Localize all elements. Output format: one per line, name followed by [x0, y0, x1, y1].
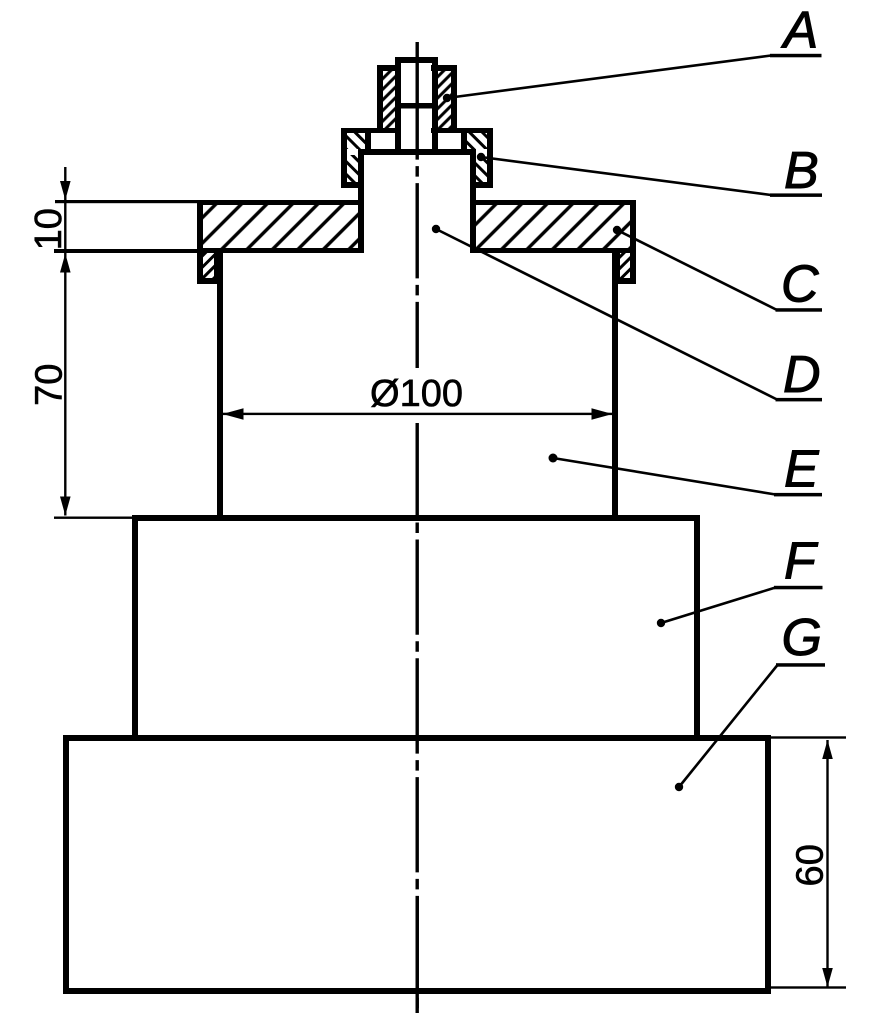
label C leader	[617, 230, 777, 310]
boss right edge	[470, 149, 476, 253]
svg-text:70: 70	[29, 364, 71, 406]
plate C bottom line right	[470, 248, 636, 253]
plate C bottom line left	[197, 248, 364, 253]
dim 60 up arrow	[822, 740, 833, 759]
bushing B right outer wall	[487, 128, 493, 188]
plate C top line left	[197, 200, 364, 205]
dim 70 bottom extension line	[54, 517, 132, 519]
dim 60 down arrow	[822, 968, 833, 987]
plate C hatch right lip	[620, 253, 630, 278]
label A leader dot	[443, 94, 451, 102]
dim 60 bottom extension line	[771, 986, 846, 988]
plate C left lip inner edge	[214, 253, 220, 284]
bushing B hatch left lower	[347, 155, 358, 182]
bushing B bottom right	[470, 182, 493, 188]
dim 60 top extension line	[771, 736, 846, 738]
nut A left outer edge	[377, 65, 383, 133]
plate C hatch right	[476, 205, 630, 248]
svg-text:G: G	[782, 609, 822, 667]
label G leader	[679, 665, 778, 787]
cylinder F left wall	[132, 515, 138, 741]
plate C top line right	[470, 200, 636, 205]
label G shelf	[776, 663, 825, 667]
plate C right lip inner edge	[614, 253, 620, 284]
cylinder F top line	[132, 515, 700, 521]
bushing B left outer wall	[341, 128, 347, 188]
stud right edge	[432, 57, 438, 154]
svg-text:Ø100: Ø100	[370, 373, 463, 415]
dim 70 text	[29, 364, 71, 406]
bushing B top line left segment	[341, 128, 401, 133]
svg-text:F: F	[784, 533, 819, 591]
svg-text:E: E	[784, 441, 820, 499]
bushing B top line right segment	[431, 128, 493, 133]
stud D top cap	[395, 57, 438, 63]
dim 60 text	[790, 844, 832, 886]
label C leader dot	[613, 226, 621, 234]
label D shelf	[776, 398, 823, 402]
bushing B hatch right lower	[476, 155, 487, 182]
label A leader	[447, 56, 771, 99]
label F shelf	[774, 586, 823, 590]
boss left edge	[358, 149, 364, 253]
dim 100 right arrow	[592, 408, 613, 420]
dim diameter 100 line	[223, 413, 612, 415]
label F leader	[661, 588, 776, 624]
label G leader dot	[675, 783, 683, 791]
label E shelf	[774, 493, 822, 497]
dim 10/70 line	[64, 167, 66, 516]
dim 10 top extension line	[55, 200, 197, 203]
label D leader dot	[432, 225, 440, 233]
nut A top right segment	[431, 65, 457, 71]
centerline gap at dim text	[409, 368, 426, 423]
plate C right lip bottom	[614, 278, 636, 284]
svg-text:A: A	[781, 2, 819, 60]
bushing B step / boss top line	[358, 149, 476, 155]
dim 10 text	[28, 208, 70, 250]
dim 70 up arrow	[60, 254, 71, 273]
centerline top solid segment	[416, 42, 419, 65]
label F leader dot	[657, 619, 665, 627]
label A shelf	[770, 54, 822, 58]
base G bottom line	[63, 988, 771, 994]
stud left edge	[395, 57, 401, 154]
svg-text:B: B	[784, 142, 819, 200]
label B leader dot	[477, 153, 485, 161]
plate C left lip bottom	[197, 278, 220, 284]
svg-text:D: D	[783, 346, 821, 404]
nut A top left segment	[377, 65, 401, 71]
plate C left outer edge	[197, 200, 203, 284]
cylinder E right wall	[612, 253, 618, 521]
svg-text:C: C	[781, 256, 819, 314]
plate C hatch left	[203, 205, 358, 248]
nut A hatch left	[383, 71, 395, 128]
nut A hatch right	[438, 71, 451, 128]
base G top line	[63, 735, 771, 741]
nut A right outer edge	[451, 65, 457, 133]
dim 100 left arrow	[223, 408, 244, 420]
label E leader	[553, 458, 776, 495]
label B shelf	[770, 193, 822, 197]
svg-text:60: 60	[790, 844, 832, 886]
bushing B hatch left upper	[347, 133, 365, 149]
bushing B right bore wall	[461, 133, 467, 151]
label B leader	[481, 157, 771, 195]
plate C right outer edge	[630, 200, 636, 284]
centerline bottom solid segment	[416, 896, 419, 1013]
base G left wall	[63, 735, 69, 994]
svg-text:10: 10	[28, 208, 70, 250]
bushing B left bore wall	[365, 133, 371, 151]
dim 10/70 middle extension line	[54, 249, 197, 253]
plate C hatch left lip	[203, 253, 214, 278]
label E leader dot	[549, 454, 558, 463]
cylinder F right wall	[694, 515, 700, 741]
bushing B bottom left	[341, 182, 364, 188]
dim 10 down arrow	[60, 181, 71, 200]
cylinder E left wall	[217, 253, 223, 521]
centerline	[416, 64, 419, 1013]
label D leader	[436, 229, 777, 400]
dim 70 down arrow	[60, 497, 71, 516]
stud cross line	[395, 103, 438, 109]
bushing B hatch right upper	[467, 133, 487, 149]
base G right wall	[765, 735, 771, 994]
dim 60 line	[826, 740, 828, 987]
label C shelf	[776, 308, 823, 312]
